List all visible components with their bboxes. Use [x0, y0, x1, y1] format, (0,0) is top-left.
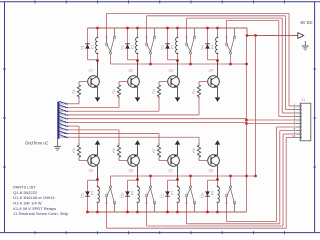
wire Q6 base [119, 157, 128, 160]
svg-text:Q5: Q5 [89, 168, 94, 172]
diode D6 [125, 191, 130, 196]
relay K6 contacts [145, 186, 155, 212]
wire Q8 base [199, 157, 208, 160]
wire Q5 base [79, 157, 88, 160]
wire Q5 collector [97, 166, 99, 180]
wire relay 1 left branch [88, 28, 98, 60]
wire Q2 base [119, 82, 128, 85]
wire R6 to input pin 8 [68, 130, 119, 143]
transistor Q8 [208, 154, 220, 166]
diode D1 [85, 44, 90, 49]
svg-text:R5: R5 [72, 148, 76, 153]
relay K1 coil [96, 27, 99, 62]
wire relay 6 common to bus [150, 176, 152, 186]
svg-text:R7: R7 [152, 148, 156, 153]
relay K2 contacts [145, 29, 155, 55]
wire Q6 emitter [137, 144, 139, 155]
svg-text:Q2: Q2 [129, 69, 134, 73]
diode D5 [85, 191, 90, 196]
connector J1 pin numbers [292, 103, 295, 139]
ground arrow Q8 emitter [215, 140, 221, 145]
svg-text:D5: D5 [80, 193, 84, 198]
wire Q8 emitter [217, 144, 219, 155]
wire Q5 emitter [97, 144, 99, 155]
wire Q3 emitter [177, 87, 179, 98]
wire R5 to input pin 7 [68, 126, 79, 143]
resistor R6 [117, 143, 120, 157]
svg-text:Q6: Q6 [129, 168, 134, 172]
resistor R2 [117, 85, 120, 99]
svg-text:K4: K4 [211, 45, 215, 49]
wire Q1 emitter [97, 87, 99, 98]
svg-text:R2: R2 [112, 89, 116, 94]
transistor Q6 [128, 154, 140, 166]
wire J1 pin 6 feed [247, 123, 297, 125]
wire Q7 collector [177, 166, 179, 180]
wire relay 2 NO contact to J1 pin 2 [147, 16, 297, 110]
svg-text:PARTS LIST: PARTS LIST [13, 185, 36, 190]
wire relay 6 left branch [126, 180, 137, 213]
wire R1 to input pin 1 [68, 99, 79, 104]
wire J1 pin 5 feed [247, 119, 297, 121]
svg-text:GND: GND [60, 135, 66, 139]
svg-text:K1-8 06 V SPDT Relays: K1-8 06 V SPDT Relays [13, 206, 56, 211]
ground arrow Q3 emitter [175, 97, 181, 102]
wire input pin 6 to common spine [68, 121, 247, 123]
diode D8 [205, 191, 210, 196]
wire relay 1 NO contact to J1 pin 1 [107, 14, 297, 107]
wire 6V DC feed to arrow [246, 34, 298, 37]
ground arrow Q1 emitter [95, 97, 101, 102]
svg-text:D7: D7 [160, 193, 164, 198]
wire relay 3 common to bus [190, 54, 192, 64]
relay K8 coil [216, 178, 219, 213]
wire relay 8 left branch [206, 180, 217, 213]
wire Q1 base [79, 82, 88, 85]
wire bottom common bus [111, 175, 256, 178]
wire relay 7 left branch [166, 180, 177, 213]
transistor Q1 [88, 76, 100, 88]
svg-text:Q4: Q4 [209, 69, 214, 73]
diode D3 [165, 44, 170, 49]
svg-text:6V DC: 6V DC [300, 20, 312, 25]
svg-text:K2: K2 [131, 45, 135, 49]
svg-text:Q8: Q8 [209, 168, 214, 172]
ground arrow Q6 emitter [135, 140, 141, 145]
wire Q2 emitter [137, 87, 139, 98]
ground arrow Q7 emitter [175, 140, 181, 145]
svg-text:Q3: Q3 [169, 69, 174, 73]
wire R7 to input pin 9 [68, 134, 159, 143]
wire input pin 5 to common spine [68, 118, 247, 120]
transistor Q2 [128, 76, 140, 88]
svg-text:K5: K5 [91, 191, 95, 195]
wire R8 to input pin 10 [68, 137, 199, 143]
wire relay 5 common to bus [110, 176, 112, 186]
wire relay 5 left branch [86, 180, 97, 213]
wire Q4 base [199, 82, 208, 85]
transistor Q7 [168, 154, 180, 166]
wire relay 2 common to bus [150, 54, 152, 64]
svg-text:R1: R1 [72, 89, 76, 94]
wire Q3 collector [177, 61, 179, 77]
relay K1 contacts [105, 29, 115, 55]
svg-text:D1-8 1N4148 or 1N914: D1-8 1N4148 or 1N914 [13, 195, 55, 200]
wire relay 3 left branch [166, 27, 177, 60]
wire common spine right side [245, 36, 248, 213]
svg-text:K7: K7 [171, 191, 175, 195]
svg-text:K3: K3 [171, 45, 175, 49]
relay K5 contacts [105, 186, 115, 212]
wire relay 7 common to bus [190, 176, 192, 186]
resistor R3 [157, 85, 160, 99]
relay K7 contacts [185, 186, 195, 212]
ground arrow Q2 emitter [135, 97, 141, 102]
wire relay 8 common to bus [230, 176, 232, 186]
svg-text:D8: D8 [200, 193, 204, 198]
ground from uC symbol [54, 139, 61, 150]
transistor Q3 [168, 76, 180, 88]
relay K3 coil [176, 27, 179, 62]
relay K8 contacts [225, 186, 235, 212]
wire relay 5 NO contact to J1 pin 10 [107, 138, 297, 229]
svg-text:Q1: Q1 [89, 69, 94, 73]
svg-text:Q1-8 2N2222: Q1-8 2N2222 [13, 190, 38, 195]
svg-text:J1 Electrical Screw Conn. Stri: J1 Electrical Screw Conn. Strip [13, 211, 69, 216]
connector uC input header [57, 101, 68, 139]
connector J1 screw terminal strip [296, 103, 311, 141]
transistor Q4 [208, 76, 220, 88]
transistor Q5 [88, 154, 100, 166]
wire Q1 collector [97, 61, 99, 77]
ground arrow Q4 emitter [215, 97, 221, 102]
svg-text:D4: D4 [200, 45, 204, 50]
wire R2 to input pin 2 [68, 99, 119, 108]
parts list text block [13, 185, 69, 217]
diode D7 [165, 191, 170, 196]
power input arrow 6V DC [298, 33, 304, 39]
relay K3 contacts [185, 29, 195, 55]
ground symbol power input [302, 41, 309, 50]
wire +6V top rail [88, 28, 248, 36]
wire Q6 collector [137, 166, 139, 180]
wire Q4 emitter [217, 87, 219, 98]
diode D4 [205, 44, 210, 49]
wire +6V bottom rail [88, 211, 247, 213]
wire relay 4 left branch [206, 27, 217, 60]
relay K4 contacts [225, 29, 235, 55]
diode D2 [125, 44, 130, 49]
wire relay 1 common to bus [110, 54, 112, 64]
relay K4 coil [216, 27, 219, 62]
svg-text:K1: K1 [91, 45, 95, 49]
wire relay 3 NO contact to J1 pin 3 [187, 18, 297, 113]
ground arrow Q5 emitter [95, 140, 101, 145]
wire Q7 emitter [177, 144, 179, 155]
wire relay 4 common to bus [230, 54, 232, 64]
svg-text:R3: R3 [152, 89, 156, 94]
relay K7 coil [176, 178, 179, 213]
wire relay 6 NO contact to J1 pin 9 [147, 134, 297, 226]
svg-text:R1-8 10K 1/4 W: R1-8 10K 1/4 W [13, 201, 42, 206]
wire Q2 collector [137, 61, 139, 77]
wire relay 7 NO contact to J1 pin 8 [187, 131, 297, 224]
svg-text:R4: R4 [192, 89, 196, 94]
resistor R4 [197, 85, 200, 99]
wire relay 8 NO contact to J1 pin 7 [227, 127, 297, 222]
svg-text:K8: K8 [211, 191, 215, 195]
svg-text:D1: D1 [80, 45, 84, 50]
wire relay 2 left branch [126, 27, 137, 60]
svg-text:Gnd from uC: Gnd from uC [25, 140, 48, 145]
wire R4 to input pin 4 [68, 99, 199, 115]
svg-text:D2: D2 [120, 45, 124, 50]
svg-text:K6: K6 [131, 191, 135, 195]
svg-text:Q7: Q7 [169, 168, 174, 172]
wire 6V drop to bottom common bus [254, 36, 257, 178]
relay K5 coil [96, 178, 99, 213]
resistor R1 [77, 85, 80, 99]
connector pin labels [60, 101, 66, 138]
relay K6 coil [136, 178, 139, 213]
wire Q7 base [159, 157, 168, 160]
wire top common bus [111, 63, 247, 66]
wire Q8 collector [217, 166, 219, 180]
wire Q3 base [159, 82, 168, 85]
svg-text:R6: R6 [112, 148, 116, 153]
resistor R8 [197, 143, 200, 157]
wire Q4 collector [217, 61, 219, 77]
wire relay 4 NO contact to J1 pin 4 [227, 20, 297, 116]
resistor R5 [77, 143, 80, 157]
resistor R7 [157, 143, 160, 157]
svg-text:D3: D3 [160, 45, 164, 50]
wire R3 to input pin 3 [68, 99, 159, 111]
svg-text:D6: D6 [120, 193, 124, 198]
relay K2 coil [136, 27, 139, 62]
svg-text:R8: R8 [192, 148, 196, 153]
